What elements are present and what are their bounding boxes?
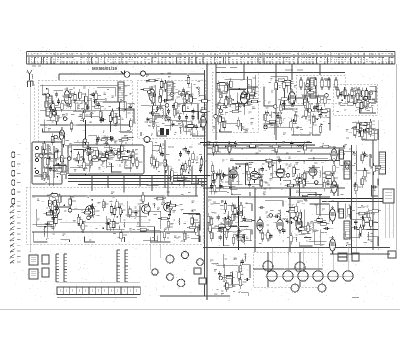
wire xyxy=(137,227,155,241)
coil C12 xyxy=(284,85,289,88)
wire xyxy=(157,132,167,136)
resistor R172 xyxy=(331,173,334,185)
wire xyxy=(312,121,319,135)
resistor R93 xyxy=(324,94,327,106)
resistor R164 xyxy=(303,170,306,182)
wire xyxy=(78,117,101,123)
wire xyxy=(49,89,63,108)
resistor R160 xyxy=(221,170,224,182)
plug pin arrow P2 xyxy=(10,210,15,214)
resistor R49 xyxy=(152,94,155,106)
junction J16 xyxy=(317,119,319,121)
wire xyxy=(224,264,226,279)
label mark L574 xyxy=(293,123,297,125)
junction J7 xyxy=(71,151,73,153)
resistor R179 xyxy=(116,199,119,211)
resistor R130 xyxy=(106,153,118,156)
label mark L879 xyxy=(243,281,247,283)
video stage dashed enclosure xyxy=(296,75,345,103)
resistor R168 xyxy=(214,170,217,182)
bottom rail y296 xyxy=(160,295,230,297)
resistor R30 xyxy=(89,159,101,162)
socket pin O6 xyxy=(12,198,15,204)
junction J27 xyxy=(343,146,345,148)
band drop stub 3 xyxy=(275,64,277,73)
resistor R95 xyxy=(281,83,293,86)
wire xyxy=(170,88,172,97)
resistor R37 xyxy=(183,103,186,115)
capacitor C43 xyxy=(313,105,316,111)
resistor R40 xyxy=(186,91,189,103)
socket pin O5 xyxy=(12,189,15,195)
junction J4 xyxy=(84,149,86,151)
resistor R96 xyxy=(283,79,286,91)
resistor R185 xyxy=(167,204,179,207)
capacitor C14 xyxy=(55,150,61,153)
resistor R64 xyxy=(223,119,226,131)
capacitor C103 xyxy=(219,234,222,240)
capacitor C93 xyxy=(52,215,55,221)
resistor R71 xyxy=(237,117,240,129)
capacitor C111 xyxy=(288,221,294,224)
trimmer T20 xyxy=(364,96,368,100)
resistor R217 xyxy=(231,212,234,224)
resistor R190 xyxy=(58,193,61,205)
resistor R175 xyxy=(361,176,364,188)
wire xyxy=(290,98,308,107)
capacitor C61 xyxy=(97,136,100,142)
label mark L587 xyxy=(174,172,177,174)
label mark L185 xyxy=(237,210,240,212)
stage vertical wire A xyxy=(215,73,217,141)
trimmer T17 xyxy=(325,94,329,98)
wire xyxy=(70,91,72,97)
resistor R90 xyxy=(275,80,278,92)
trimmer T22 xyxy=(35,154,39,158)
label mark L935 xyxy=(243,206,246,208)
resistor R112 xyxy=(364,98,367,110)
resistor R193 xyxy=(167,218,170,230)
choke coil box T3 xyxy=(339,150,344,159)
socket stem wire B6 xyxy=(347,248,349,271)
resistor R167 xyxy=(285,184,297,187)
plug pin arrow P4 xyxy=(10,221,15,225)
coil C13 xyxy=(273,111,280,114)
resistor R13 xyxy=(55,112,58,124)
wire xyxy=(255,75,257,95)
label mark L889 xyxy=(235,206,239,208)
wire xyxy=(300,173,314,183)
balun core K1 xyxy=(121,71,130,78)
wire xyxy=(269,127,294,135)
resistor R183 xyxy=(55,215,58,227)
label mark L625 xyxy=(351,209,355,211)
label mark L551 xyxy=(231,147,234,149)
wire xyxy=(362,136,370,140)
resistor R250 xyxy=(223,276,235,279)
wire xyxy=(321,245,323,248)
wire xyxy=(280,100,297,109)
capacitor C79 xyxy=(230,175,236,178)
label mark L731 xyxy=(228,100,231,102)
wire xyxy=(184,124,191,132)
resistor R7 xyxy=(115,114,118,126)
wire xyxy=(359,99,361,113)
resistor R52 xyxy=(160,86,163,98)
filter block F2 xyxy=(29,269,38,279)
wire xyxy=(210,175,231,177)
trimmer T4 xyxy=(52,112,56,116)
wire xyxy=(146,117,157,119)
wire xyxy=(139,205,141,227)
plug pin arrow P5 xyxy=(10,226,15,230)
trimmer T27 xyxy=(286,174,290,178)
capacitor C48 xyxy=(319,112,322,118)
transistor Q3 xyxy=(142,203,151,216)
wire xyxy=(175,112,182,114)
wire xyxy=(107,216,124,230)
capacitor C114 xyxy=(274,215,280,218)
wire xyxy=(217,231,242,233)
vibrator V12 xyxy=(294,261,306,273)
audio box rail c xyxy=(60,221,150,223)
wire xyxy=(356,107,372,113)
coil C21 xyxy=(153,144,160,147)
wire xyxy=(236,236,245,242)
trimmer T29 xyxy=(68,209,72,213)
capacitor C116 xyxy=(257,224,263,227)
coil C36 xyxy=(222,223,225,228)
resistor R211 xyxy=(44,212,56,215)
wire xyxy=(179,127,200,129)
coil C10 xyxy=(236,106,241,109)
capacitor C87 xyxy=(90,204,93,210)
label mark L247 xyxy=(156,121,160,123)
wire xyxy=(219,82,221,92)
capacitor C110 xyxy=(259,206,265,209)
wire xyxy=(175,103,177,114)
resistor R226 xyxy=(232,234,235,246)
junction J37 xyxy=(292,217,294,219)
label mark L357 xyxy=(365,92,368,94)
wire xyxy=(322,166,333,188)
label mark L912 xyxy=(239,105,242,107)
valve base diagram C2 xyxy=(317,283,327,293)
wire xyxy=(246,98,258,100)
wire xyxy=(165,124,183,126)
junction J13 xyxy=(238,88,240,90)
delay line taps xyxy=(35,146,38,149)
resistor R10 xyxy=(92,106,104,109)
resistor R147 xyxy=(200,156,203,168)
coil C33 xyxy=(178,218,181,225)
wire xyxy=(146,142,152,159)
dark drop x320 xyxy=(319,194,321,216)
label mark L417 xyxy=(72,99,75,101)
value labels cluster 5 xyxy=(263,78,328,134)
junction J30 xyxy=(118,207,120,209)
wire xyxy=(196,214,200,230)
wire xyxy=(346,231,360,237)
capacitor C8 xyxy=(49,105,52,111)
resistor R11 xyxy=(69,97,72,109)
resistor R151 xyxy=(246,162,249,174)
capacitor C80 xyxy=(296,177,302,180)
label mark L304 xyxy=(235,216,238,218)
video coax vertical dark xyxy=(85,120,87,176)
wire xyxy=(365,222,379,224)
resistor R21 xyxy=(130,118,133,130)
tube socket S4 xyxy=(166,272,175,281)
wire xyxy=(372,134,378,140)
tube V4 IF amp xyxy=(240,89,247,107)
resistor R100 xyxy=(280,102,283,114)
capacitor C95 xyxy=(49,209,52,215)
capacitor C40 xyxy=(320,107,323,113)
wire xyxy=(110,126,112,132)
resistor R74 xyxy=(229,95,232,107)
right vertical bus x351 xyxy=(351,145,353,255)
resistor R256 xyxy=(269,145,281,148)
wire xyxy=(315,230,325,244)
resistor R162 xyxy=(213,182,216,194)
capacitor C107 xyxy=(242,234,245,240)
tube W1 xyxy=(225,216,231,233)
value labels cluster 2 xyxy=(42,135,128,167)
label mark L892 xyxy=(358,91,361,93)
resistor R253 xyxy=(275,143,278,155)
resistor R19 xyxy=(95,90,98,102)
resistor R33 xyxy=(121,143,124,155)
capacitor C99 xyxy=(218,226,221,232)
resistor R186 xyxy=(187,226,199,229)
coil C34 xyxy=(43,227,46,237)
junction J20 xyxy=(57,176,59,178)
capacitor C71 xyxy=(278,158,281,164)
label mark L927 xyxy=(278,85,281,87)
resistor RV1 xyxy=(300,77,303,90)
valve base diagram B4 xyxy=(312,270,324,282)
trimmer T16 xyxy=(308,109,312,113)
transistor Q2 xyxy=(86,204,95,217)
tuner unit dashed enclosure xyxy=(38,80,132,170)
wire xyxy=(302,95,325,97)
wire xyxy=(133,110,136,124)
label mark L383 xyxy=(116,223,119,225)
junction J29 xyxy=(191,210,193,212)
socket feed wire b xyxy=(159,244,161,258)
label mark L743 xyxy=(83,221,86,223)
valve base diagram B5 xyxy=(327,270,339,282)
wire xyxy=(37,209,54,226)
wire xyxy=(88,136,96,143)
label mark L622 xyxy=(72,101,75,103)
label mark L468 xyxy=(164,83,168,85)
transistor Q1 xyxy=(51,205,60,218)
IF bus line 5 xyxy=(230,160,340,162)
wire xyxy=(309,240,327,242)
label mark L477 xyxy=(370,213,374,215)
resistor R6 xyxy=(109,113,112,125)
capacitor C31 xyxy=(159,104,162,110)
trimmer T7 xyxy=(83,139,87,143)
capacitor C37 xyxy=(225,95,228,101)
label mark L837 xyxy=(350,97,353,99)
capacitor C55 xyxy=(49,166,52,172)
wire xyxy=(196,236,200,242)
right vertical bus x373 xyxy=(372,140,374,250)
label mark L685 xyxy=(191,161,194,163)
junction J11 xyxy=(189,94,191,96)
label mark L771 xyxy=(109,154,113,156)
coil C28 xyxy=(297,179,300,186)
wire xyxy=(310,222,324,224)
label mark L838 xyxy=(64,104,67,106)
capacitor C53 xyxy=(356,130,362,133)
resistor R223 xyxy=(240,207,243,219)
capacitor C112 xyxy=(317,216,320,222)
resistor RV5 xyxy=(328,77,331,90)
label mark L985 xyxy=(336,167,339,169)
capacitor C19 xyxy=(47,157,53,160)
resistor R111 xyxy=(365,88,368,100)
junction J21 xyxy=(185,163,187,165)
resistor R212 xyxy=(163,229,166,241)
resistor R227 xyxy=(240,202,243,214)
filter block F4 xyxy=(42,268,49,277)
wire xyxy=(376,179,379,186)
label mark L983 xyxy=(93,160,97,162)
capacitor C92 xyxy=(168,212,171,218)
resistor R39 xyxy=(184,94,187,106)
wire xyxy=(93,99,106,101)
resistor R31 xyxy=(73,158,85,161)
label mark L357 xyxy=(86,163,90,165)
wire xyxy=(248,77,259,87)
tube V1 RF amp xyxy=(64,88,70,107)
label mark L482 xyxy=(327,98,331,100)
capacitor C63 xyxy=(108,136,114,139)
resistor R117 xyxy=(354,126,357,138)
label mark L790 xyxy=(167,233,170,235)
label mark L571 xyxy=(211,217,215,219)
wire xyxy=(168,165,187,177)
capacitor C104 xyxy=(217,214,220,220)
label mark L849 xyxy=(159,162,163,164)
resistor RS2 xyxy=(344,87,347,99)
dark mixer blob xyxy=(160,128,164,135)
resistor R116 xyxy=(358,123,370,126)
capacitor C46 xyxy=(291,119,297,122)
resistor R46 xyxy=(175,92,187,95)
wire xyxy=(152,150,162,152)
capacitor C9 xyxy=(86,104,89,110)
wire xyxy=(96,142,98,145)
capacitor C100 xyxy=(243,216,246,222)
label mark L486 xyxy=(163,90,166,92)
label mark L760 xyxy=(222,117,225,119)
wire xyxy=(230,84,249,104)
label mark L346 xyxy=(187,98,190,100)
stage label SP xyxy=(216,67,237,69)
value labels cluster 11 xyxy=(148,142,204,184)
lower vertical wire x290 xyxy=(289,188,291,252)
resistor R142 xyxy=(150,155,153,167)
resistor R156 xyxy=(303,177,306,189)
vibrator V11 xyxy=(262,260,274,272)
resistor R188 xyxy=(112,219,115,231)
capacitor C27 xyxy=(149,111,155,114)
resistor R231 xyxy=(295,203,298,215)
capacitor C45 xyxy=(307,88,313,91)
wire xyxy=(188,215,200,223)
label mark L209 xyxy=(113,223,116,225)
wire xyxy=(299,242,312,246)
resistor R97 xyxy=(294,112,297,124)
coil C29 xyxy=(258,170,261,180)
resistor R140 xyxy=(156,158,159,170)
resistor R110 xyxy=(344,103,356,106)
coil C24 xyxy=(278,168,285,171)
junction J25 xyxy=(239,166,241,168)
resistor R114 xyxy=(361,128,364,140)
resistor R146 xyxy=(165,161,168,173)
capacitor C94 xyxy=(105,222,111,225)
resistor R3 xyxy=(55,112,58,124)
horizontal rail y188 right xyxy=(203,187,345,189)
label mark L428 xyxy=(357,98,360,100)
resistor R170 xyxy=(260,177,263,189)
resistor R171 xyxy=(274,170,286,173)
wire xyxy=(216,264,238,266)
resistor R23 xyxy=(85,93,88,105)
resistor R210 xyxy=(113,206,116,218)
wire xyxy=(243,234,245,245)
trimmer T23 xyxy=(40,154,44,158)
wire xyxy=(229,89,246,91)
IF bus dark double b xyxy=(203,144,315,146)
value labels cluster 9 xyxy=(74,148,138,171)
label mark L208 xyxy=(86,114,89,116)
resistor R34 xyxy=(61,153,64,165)
capacitor C119 xyxy=(352,226,358,229)
module leads xyxy=(385,203,393,238)
wire xyxy=(303,82,305,91)
resistor R208 xyxy=(90,206,93,218)
resistor R215 xyxy=(231,202,234,214)
wire xyxy=(143,240,158,242)
resistor R18 xyxy=(111,108,114,120)
label mark L284 xyxy=(364,132,367,134)
label mark L802 xyxy=(251,175,254,177)
resistor R154 xyxy=(269,158,272,170)
label mark L188 xyxy=(217,186,220,188)
resistor R58 xyxy=(218,100,221,112)
resistor R24 xyxy=(114,149,126,152)
label mark L341 xyxy=(364,180,367,182)
delay line box xyxy=(32,142,62,184)
filter block F3 xyxy=(42,255,49,264)
choke block CH2 xyxy=(352,253,359,261)
trimmer T14 xyxy=(273,105,277,109)
resistor R228 xyxy=(286,210,298,213)
wire xyxy=(157,125,165,136)
small text below ruler left xyxy=(32,65,41,67)
tube V7 frame output xyxy=(331,178,337,196)
capacitor C66 xyxy=(199,167,202,173)
label mark L618 xyxy=(50,160,53,162)
coil C11 xyxy=(289,80,292,90)
